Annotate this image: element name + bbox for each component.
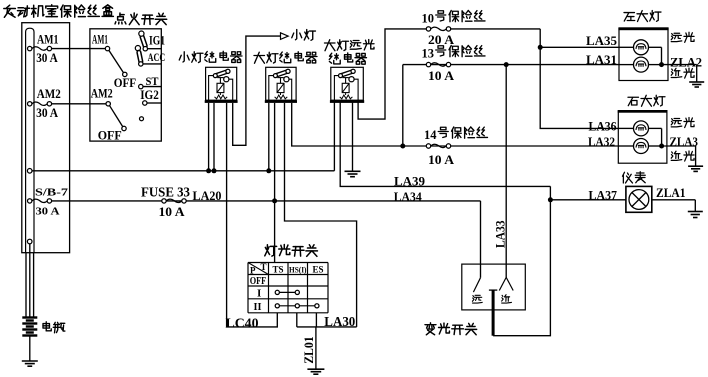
svg-text:IG1: IG1 — [149, 34, 165, 48]
junction dot LA33 branch on LA31 line — [504, 62, 509, 67]
ignition ACC terminal with contact capsule — [135, 46, 161, 67]
wire ZL01 to ground — [315, 327, 317, 369]
junction LA20/relay2 coil/light switch — [272, 198, 277, 203]
svg-text:AM2: AM2 — [37, 86, 61, 101]
right high-beam bulb — [618, 127, 633, 129]
label 小灯继电器 — [179, 51, 242, 62]
svg-text:ZLA3: ZLA3 — [670, 134, 699, 149]
label 远光 (right) — [671, 117, 694, 127]
svg-text:ACC: ACC — [148, 50, 166, 64]
right headlight common wire ZLA3 — [649, 127, 662, 129]
ignition IG1 terminal with contact capsule — [139, 31, 162, 51]
label 小灯 — [292, 30, 316, 41]
svg-text:ZLA1: ZLA1 — [656, 185, 686, 200]
svg-text:AM2: AM2 — [91, 86, 113, 101]
wire AM1 fuse to ignition switch — [49, 48, 107, 50]
wire LA30 relay U2 pin3 to light switch via riser — [285, 103, 357, 327]
label 左大灯 — [624, 11, 661, 22]
junction dot LA35 branch — [538, 45, 543, 50]
svg-text:LA33: LA33 — [493, 220, 508, 248]
dimmer switch box 变光开关 — [462, 264, 526, 310]
wire relay U3 pin4 high-beam feed to fuse 10 — [358, 29, 428, 119]
svg-text:10 A: 10 A — [159, 204, 186, 219]
table header diagonal P/T — [248, 263, 269, 275]
svg-text:30 A: 30 A — [36, 50, 58, 65]
fuse FUSE 33 10A — [162, 199, 186, 203]
dimmer 近 contact chevron — [499, 277, 506, 290]
right low-beam bulb — [618, 145, 633, 147]
fuse 14号保险丝 10A — [426, 144, 450, 148]
wire LA37 to instrument lamp — [550, 199, 626, 201]
wire LA35 to left headlight — [540, 46, 619, 48]
switch row II contacts — [277, 305, 317, 307]
left headlight box 左大灯 — [619, 29, 668, 81]
wire high-beam feed LA35/LA36 riser at x540 — [540, 29, 618, 128]
label 仪表 — [623, 172, 646, 183]
svg-text:IG2: IG2 — [140, 88, 159, 102]
label 右大灯 — [628, 95, 665, 106]
light switch HS/ES pins to LA30 bracket — [296, 313, 298, 327]
wire AM2 fuse to ignition switch — [49, 103, 108, 105]
wire LA33 to dimmer switch — [505, 65, 507, 278]
junction dot relay U2 pin1 — [266, 168, 271, 173]
relay U1 pin2 wire to +B line — [213, 103, 215, 171]
svg-text:TS: TS — [273, 265, 284, 275]
fuse 10号保险丝 20A — [426, 27, 450, 31]
wire LA39 relay U3 pin2 to dimmer return riser — [340, 102, 550, 186]
junction dot fuse13/14 riser — [400, 144, 405, 149]
relay U3 pin1 wire to +B line — [333, 102, 335, 171]
label 远光 (left) — [671, 32, 694, 42]
label 继电器 line2 — [329, 53, 366, 64]
svg-text:LA36: LA36 — [589, 119, 617, 134]
svg-text:LC40: LC40 — [226, 315, 259, 330]
svg-text:LA35: LA35 — [586, 33, 617, 48]
relay U1 pin1 wire to +B line — [208, 103, 210, 171]
svg-text:13: 13 — [422, 45, 435, 60]
relay U3 大灯远光继电器 — [330, 67, 364, 103]
label 灯光开关 — [265, 245, 318, 257]
relay U2 pin1 wire to +B line — [268, 103, 270, 171]
svg-text:LA37: LA37 — [589, 187, 618, 202]
wires fuse box to battery — [25, 253, 27, 318]
left headlight ground — [689, 82, 704, 87]
bus tap terminal circle — [27, 169, 32, 174]
ignition spare terminal circle — [140, 117, 144, 121]
label 点火开关 — [115, 13, 167, 25]
svg-text:ZLA2: ZLA2 — [670, 54, 702, 69]
svg-text:T: T — [261, 262, 267, 272]
label 近光 (right) — [671, 151, 694, 161]
relay U1 小灯继电器 — [205, 67, 238, 103]
relay U3 ground — [345, 171, 361, 176]
light switch ground — [307, 369, 324, 374]
ignition IG2 terminal — [143, 101, 147, 105]
svg-text:OFF: OFF — [98, 128, 122, 143]
switch row I contacts — [277, 291, 297, 293]
ignition AM2 terminal and blade to OFF — [110, 106, 123, 127]
wire instrument lamp to ground — [652, 199, 696, 201]
ignition ST terminal — [139, 84, 143, 88]
bottom bus tap circle to battery — [27, 239, 32, 244]
right headlight ground — [688, 166, 703, 171]
wire S/B-7 FUSE33 LA20 LA34 line — [49, 200, 480, 202]
svg-text:LA39: LA39 — [394, 174, 425, 189]
svg-text:LA20: LA20 — [193, 188, 222, 203]
svg-text:ZL01: ZL01 — [301, 336, 316, 364]
relay U3 pin3 wire to ground — [352, 102, 354, 171]
svg-text:10 A: 10 A — [428, 68, 455, 83]
svg-text:I: I — [257, 287, 261, 299]
dimmer 远 contact blade — [473, 278, 480, 292]
wire fuse10 to junction x540 — [449, 28, 541, 30]
fuse AM2 30A — [28, 102, 52, 106]
label 发动机室保险丝盒 — [4, 5, 114, 18]
right headlight box 右大灯 — [618, 111, 667, 163]
battery ground — [22, 361, 38, 366]
wire relay U1 pin4 to 小灯 arrow — [233, 36, 281, 145]
svg-text:OFF: OFF — [250, 276, 267, 287]
junction dots relay U1 pins on +B line — [206, 168, 211, 173]
wire relay U2 pin4 low-beam feed to fuses 13/14 — [292, 103, 403, 146]
fuse S/B-7 30A — [28, 199, 52, 203]
relay U2 大灯继电器 — [265, 67, 297, 103]
svg-text:ST: ST — [146, 74, 159, 88]
wire LC40 relay U1 pin3 to light switch TS — [227, 103, 278, 327]
label 近 (dimmer) — [502, 295, 512, 303]
svg-text:LA31: LA31 — [586, 52, 617, 67]
svg-text:14: 14 — [424, 127, 437, 142]
label 大灯继电器 — [254, 52, 317, 63]
svg-text:ES: ES — [313, 265, 324, 275]
svg-text:S/B-7: S/B-7 — [35, 187, 69, 199]
left high-beam bulb — [619, 46, 634, 48]
ignition AM1 terminal and blade to OFF — [109, 51, 124, 73]
ignition switch box 点火开关 — [90, 29, 161, 141]
svg-text:P: P — [250, 266, 256, 276]
svg-text:FUSE 33: FUSE 33 — [141, 185, 190, 200]
svg-text:LA34: LA34 — [394, 189, 422, 204]
light switch table 灯光开关 — [248, 263, 328, 313]
dimmer common thick bar — [489, 289, 497, 291]
fuse AM1 30A — [28, 46, 52, 50]
svg-text:30 A: 30 A — [36, 105, 59, 120]
label 大灯远光 line1 — [325, 40, 374, 51]
engine-room fuse box outline — [22, 23, 70, 253]
arrow head to 小灯 — [281, 33, 289, 40]
wire 14号 line LA32 to right headlight — [403, 145, 619, 147]
instrument lamp ZLA1 — [626, 186, 652, 212]
svg-text:10: 10 — [422, 10, 435, 25]
fuse box bus-bar strip — [26, 28, 34, 253]
wire relay U2 pin2 to LA20 junction and light switch top — [274, 103, 276, 263]
svg-text:II: II — [254, 301, 262, 313]
label 远 (dimmer) — [472, 295, 482, 303]
svg-text:AM1: AM1 — [37, 32, 59, 47]
fuse 13号保险丝 10A — [426, 62, 450, 66]
wire battery to ground — [29, 336, 31, 362]
wire 13号 line LA31 from riser to left headlight — [403, 64, 619, 66]
svg-text:30 A: 30 A — [36, 206, 60, 218]
battery 电瓶 — [22, 318, 37, 336]
label 变光开关 — [425, 323, 477, 335]
svg-text:10 A: 10 A — [428, 152, 455, 167]
junction dot LA37 branch — [548, 197, 553, 202]
dimmer return wire to LA39 riser — [493, 186, 550, 335]
riser joining fuse13 to fuse14 line — [402, 65, 404, 146]
wire +B feed line from bus tap to relays — [30, 170, 335, 172]
svg-text:AM1: AM1 — [92, 32, 108, 47]
label 电瓶 — [43, 322, 65, 333]
left headlight common wire ZLA2 — [649, 46, 662, 48]
left low-beam bulb — [619, 64, 634, 66]
svg-text:LA32: LA32 — [588, 134, 615, 149]
wire LA34 drop into dimmer 远 contact — [480, 201, 482, 278]
svg-text:HS(I): HS(I) — [289, 264, 307, 274]
label 近光 (left) — [671, 68, 694, 78]
svg-text:OFF: OFF — [114, 76, 137, 90]
instrument lamp ground — [688, 212, 703, 218]
